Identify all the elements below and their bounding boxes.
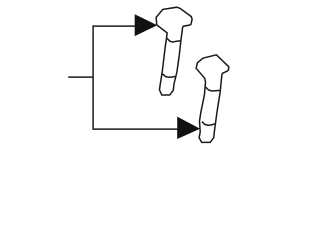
wire: bottom horizontal leader to arrow 2 xyxy=(93,128,178,130)
wire: left stub of leader bracket xyxy=(68,76,93,78)
wire: top horizontal leader to arrow 1 xyxy=(93,25,136,27)
bolt 1 (upper hex-flange bolt) xyxy=(156,7,192,95)
arrowhead 1 (points at bolt 1) xyxy=(135,14,158,36)
wire: vertical trunk of leader bracket xyxy=(92,25,94,129)
bolt 2 (lower hex-flange bolt) xyxy=(196,55,229,143)
arrowhead 2 (points at bolt 2) xyxy=(177,117,200,139)
